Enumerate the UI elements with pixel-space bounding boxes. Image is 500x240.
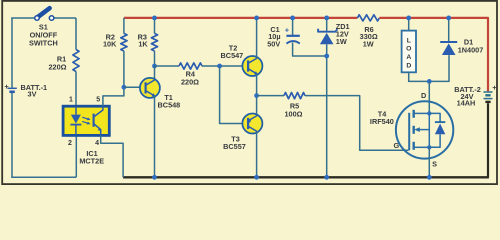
T4 body diode bottom lead [429, 134, 440, 147]
T4 channel bottom segment [413, 142, 415, 150]
wire IC pin4 to ground rail [101, 135, 123, 177]
node T2 collector rail [254, 16, 259, 21]
svg-text:BC557: BC557 [223, 142, 246, 151]
wire T4 drain lead [428, 81, 430, 113]
svg-text:2: 2 [68, 140, 72, 147]
svg-text:+: + [492, 83, 497, 92]
diode D1 triangle [442, 43, 456, 55]
IC1 phototransistor emitter [94, 124, 101, 135]
battery BATT.-2 plate2 short [485, 94, 490, 96]
wire T3 collector to ground [256, 131, 258, 177]
svg-text:+: + [285, 26, 290, 35]
wire R2 top lead [123, 18, 125, 34]
svg-text:BC548: BC548 [158, 101, 181, 110]
svg-text:1W: 1W [363, 40, 374, 49]
wire R4 right lead [202, 65, 248, 67]
wire battery1 bottom [11, 176, 76, 178]
wire to T1 base [124, 86, 146, 88]
transistor T1 circle [140, 78, 160, 98]
wire T2 emitter down [256, 74, 258, 115]
T4 internal node top [427, 111, 431, 115]
node R3 top [152, 16, 157, 21]
wire T1 collector lead [154, 66, 156, 80]
wire S1 loop left vertical [11, 18, 13, 88]
transistor T3 circle [242, 114, 262, 134]
svg-text:S: S [432, 160, 437, 169]
svg-text:1K: 1K [138, 40, 148, 49]
node ZD1 rail [324, 16, 329, 21]
svg-text:O: O [406, 46, 411, 53]
svg-text:100Ω: 100Ω [284, 109, 302, 118]
border frame [2, 1, 497, 184]
node LOAD/D1/T4 drain [427, 79, 432, 84]
switch S1 terminal left [35, 16, 40, 21]
T4 internal vertical [428, 113, 430, 147]
wire IC pin5 jog [103, 87, 124, 106]
wire T1 emitter to ground [154, 96, 156, 178]
IC1 light arrow lower [82, 121, 89, 123]
T2 base bar [247, 60, 249, 71]
wire red positive rail right [379, 18, 488, 91]
wire ground rail [123, 176, 489, 178]
wire R4 left lead [155, 65, 180, 67]
T4 body diode top lead [429, 113, 440, 122]
node R4/T2/T3 base [217, 64, 222, 69]
node ZD1/C1 [324, 54, 329, 59]
wire LOAD bottom [409, 55, 449, 81]
capacitor C1 top plate [286, 35, 299, 37]
wire R2 bottom lead [123, 51, 125, 87]
svg-text:5: 5 [96, 97, 100, 104]
svg-text:L: L [407, 37, 411, 44]
resistor R4 [179, 63, 202, 69]
wire R5 left lead [257, 95, 284, 97]
svg-text:BC547: BC547 [221, 51, 244, 60]
IC1 LED cathode lead [75, 125, 77, 135]
wire S1 loop top-right [54, 17, 76, 19]
IC1 LED cathode bar [70, 124, 81, 126]
svg-text:SWITCH: SWITCH [29, 38, 58, 47]
battery BATT.-2 plate3 long [484, 98, 493, 100]
svg-text:10K: 10K [103, 40, 117, 49]
IC1 LED triangle [71, 115, 81, 124]
IC1 phototransistor collector [94, 106, 103, 117]
T4 body arrow [418, 129, 430, 131]
node T3 collector ground [254, 175, 259, 180]
wire C1 bottom lead [293, 43, 327, 56]
node D1 rail [446, 16, 451, 21]
battery BATT.-2 plate4 short [485, 101, 490, 103]
T1 emitter diagonal [146, 91, 155, 96]
battery BATT.-1 short plate [9, 91, 14, 94]
T3 emitter diagonal [248, 116, 257, 121]
svg-text:4: 4 [95, 140, 99, 147]
node R3/R4/T1 collector [152, 64, 157, 69]
svg-text:A: A [406, 54, 411, 61]
svg-text:3V: 3V [28, 90, 37, 99]
wire R3 bottom lead [154, 51, 156, 66]
T4 channel middle segment [413, 126, 415, 134]
node LOAD rail [406, 16, 411, 21]
switch S1 lever [38, 8, 50, 17]
resistor R6 [357, 15, 379, 21]
svg-text:50V: 50V [267, 39, 280, 48]
T4 source connect [414, 146, 430, 148]
resistor R2 [121, 33, 127, 51]
svg-text:IRF540: IRF540 [370, 117, 394, 126]
wire IC pin2 lead [75, 135, 77, 177]
capacitor C1 curved plate [286, 41, 299, 43]
wire ZD1 to ground [326, 44, 328, 177]
T4 body diode bar [435, 121, 445, 123]
wire LOAD top lead [408, 18, 410, 31]
node T4 source ground [427, 175, 432, 180]
T4 gate bar [408, 113, 410, 151]
node ZD1 ground [324, 175, 329, 180]
T4 drain connect [414, 112, 430, 114]
svg-text:1N4007: 1N4007 [458, 46, 484, 55]
T1 collector diagonal [146, 80, 155, 85]
T4 body diode triangle [435, 124, 445, 135]
resistor R1 [73, 50, 79, 72]
T2 emitter diagonal [248, 69, 257, 74]
node T1 emitter ground [152, 175, 157, 180]
T4 internal node bottom [427, 145, 431, 149]
wire ZD1 top lead [326, 18, 328, 32]
wire battery2 negative [487, 103, 489, 177]
T3 base bar [247, 118, 249, 129]
wire D1 top lead [448, 18, 450, 42]
svg-text:D: D [421, 91, 426, 100]
node C1 rail [290, 16, 295, 21]
diode D1 cathode bar [440, 41, 457, 43]
wire C1 top lead [292, 18, 294, 36]
zener ZD1 triangle [320, 33, 334, 44]
svg-text:1: 1 [69, 97, 73, 104]
wire R1 top lead [75, 18, 77, 50]
node R2/pin5/T1 base [122, 85, 127, 90]
svg-text:1W: 1W [336, 37, 347, 46]
wire R1 to IC pin1 [75, 72, 77, 108]
battery BATT.-2 plate1 long [484, 91, 493, 93]
wire S1 loop top-left [11, 17, 35, 19]
mosfet T4 circle [396, 101, 453, 158]
LOAD box [402, 31, 416, 73]
resistor R5 [284, 93, 305, 99]
svg-text:MCT2E: MCT2E [79, 157, 104, 166]
IC1 light arrow upper [82, 117, 89, 119]
battery BATT.-1 long plate [8, 87, 17, 89]
svg-text:220Ω: 220Ω [181, 78, 199, 87]
T1 base bar [145, 82, 147, 93]
svg-text:14AH: 14AH [457, 98, 476, 107]
IC1 phototransistor base bar [92, 114, 94, 127]
IC1 LED anode lead [75, 107, 77, 115]
wire T4 source lead [428, 147, 430, 177]
zener ZD1 cathode bar [318, 29, 337, 32]
node T2-T3 / R5 [254, 93, 259, 98]
wire R3 top lead [154, 18, 156, 34]
resistor R3 [151, 33, 157, 51]
T4 channel top segment [413, 110, 415, 118]
T3 collector diagonal [248, 126, 257, 131]
T2 collector diagonal [248, 58, 257, 63]
svg-text:G: G [393, 141, 399, 150]
wire battery1 negative down [11, 93, 13, 177]
svg-text:D: D [406, 63, 411, 70]
transistor T2 circle [242, 56, 262, 76]
op-to IC1 MCT2E body [63, 106, 109, 135]
wire T2 collector to rail [256, 18, 258, 58]
wire red positive rail left [124, 17, 358, 19]
wire T3 base drop [220, 66, 249, 124]
switch S1 terminal right [49, 16, 54, 21]
svg-text:+: + [4, 82, 9, 91]
svg-text:220Ω: 220Ω [48, 63, 66, 72]
wire R5 to gate [305, 96, 409, 151]
